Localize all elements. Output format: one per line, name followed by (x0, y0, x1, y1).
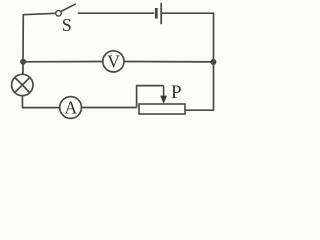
wire left vertical (top corner to lamp) (22, 14, 24, 75)
wire voltmeter branch right (124, 61, 213, 63)
rheostat slider arrow (160, 86, 167, 104)
rheostat body (139, 104, 185, 114)
node junction left (20, 59, 26, 65)
ammeter A (60, 97, 82, 119)
wire riser to slider (137, 86, 164, 108)
battery (156, 3, 161, 24)
wire switch to battery (78, 12, 154, 14)
node junction right (210, 59, 216, 65)
lamp (12, 74, 33, 95)
svg-text:S: S (62, 15, 72, 35)
voltmeter V (103, 51, 124, 72)
svg-text:V: V (107, 52, 120, 72)
wire top-left segment (23, 13, 55, 14)
wire right vertical (213, 13, 215, 110)
svg-text:A: A (64, 98, 77, 118)
wire battery to top-right corner (162, 12, 214, 14)
svg-text:P: P (171, 82, 182, 103)
wire lamp to bottom corner to ammeter (22, 96, 59, 108)
wire voltmeter branch left (23, 61, 103, 63)
switch S (56, 4, 76, 35)
wire rheostat to right vertical (185, 109, 214, 111)
wire ammeter to rheostat riser (82, 107, 137, 109)
